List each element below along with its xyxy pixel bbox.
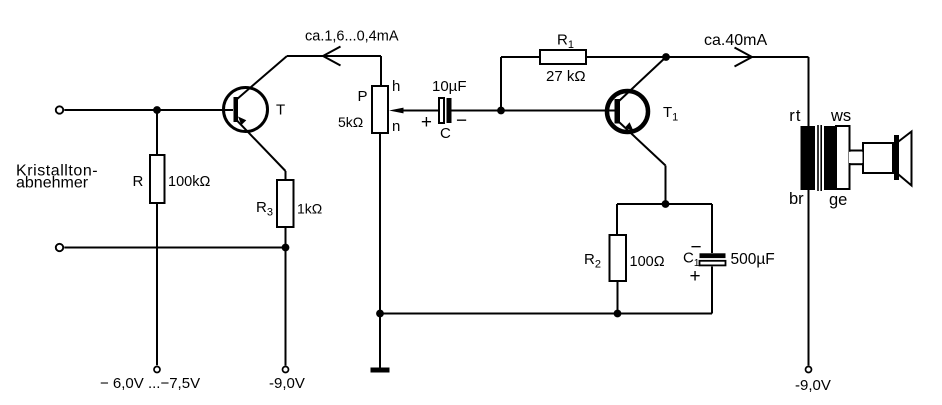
svg-text:br: br (789, 190, 804, 208)
svg-text:100Ω: 100Ω (630, 254, 665, 270)
svg-text:rt: rt (789, 107, 801, 125)
svg-text:ca.40mA: ca.40mA (704, 32, 767, 49)
svg-text:-9,0V: -9,0V (795, 377, 831, 394)
svg-text:C: C (440, 125, 451, 142)
svg-text:27 kΩ: 27 kΩ (546, 68, 586, 85)
svg-text:+: + (690, 266, 701, 287)
svg-text:500µF: 500µF (731, 251, 775, 268)
svg-text:ge: ge (829, 191, 847, 209)
svg-text:ca.1,6...0,4mA: ca.1,6...0,4mA (305, 29, 399, 45)
svg-text:5kΩ: 5kΩ (338, 114, 363, 130)
svg-text:R: R (133, 173, 144, 190)
svg-text:abnehmer: abnehmer (16, 175, 89, 192)
svg-text:n: n (392, 118, 400, 135)
svg-text:1kΩ: 1kΩ (297, 201, 322, 217)
svg-text:h: h (392, 78, 400, 95)
svg-text:10µF: 10µF (432, 78, 467, 95)
svg-text:−: − (691, 237, 702, 258)
svg-text:P: P (358, 88, 368, 105)
svg-text:−: − (456, 111, 467, 132)
svg-text:-9,0V: -9,0V (269, 375, 305, 392)
svg-text:T: T (276, 102, 285, 119)
svg-text:ws: ws (830, 107, 851, 125)
svg-text:100kΩ: 100kΩ (168, 174, 210, 190)
svg-text:+: + (421, 112, 432, 133)
svg-text:− 6,0V ...−7,5V: − 6,0V ...−7,5V (100, 375, 200, 392)
